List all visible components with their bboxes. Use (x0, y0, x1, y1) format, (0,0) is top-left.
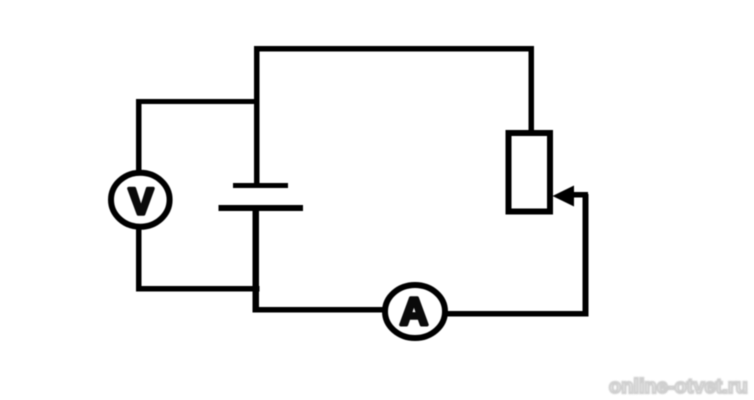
svg-text:A: A (400, 291, 428, 334)
svg-text:online-otvet.ru: online-otvet.ru (609, 376, 748, 398)
svg-text:V: V (129, 181, 154, 222)
